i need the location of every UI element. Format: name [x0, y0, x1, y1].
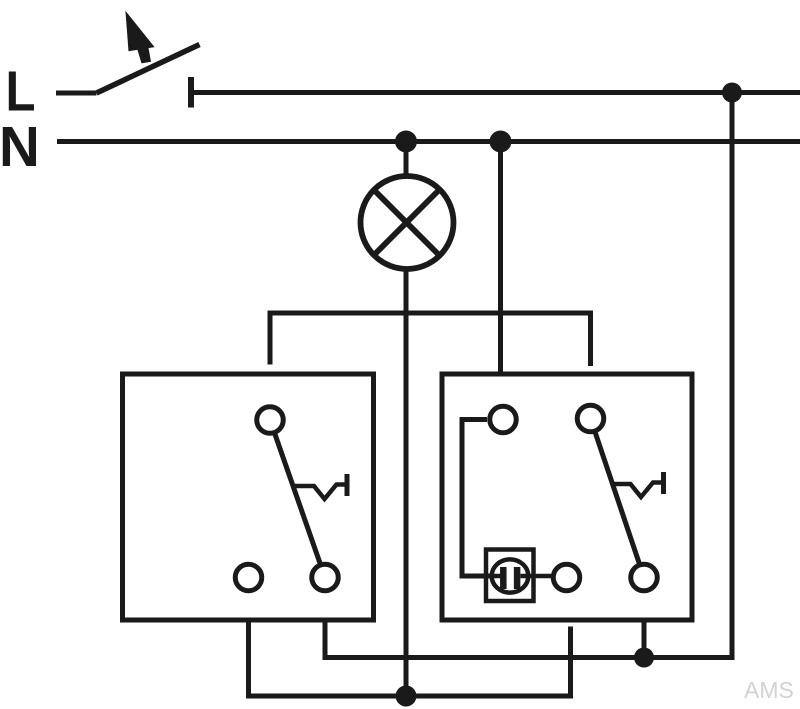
svg-text:AMS: AMS	[744, 677, 794, 703]
svg-text:N: N	[0, 115, 40, 178]
svg-text:L: L	[6, 60, 36, 123]
